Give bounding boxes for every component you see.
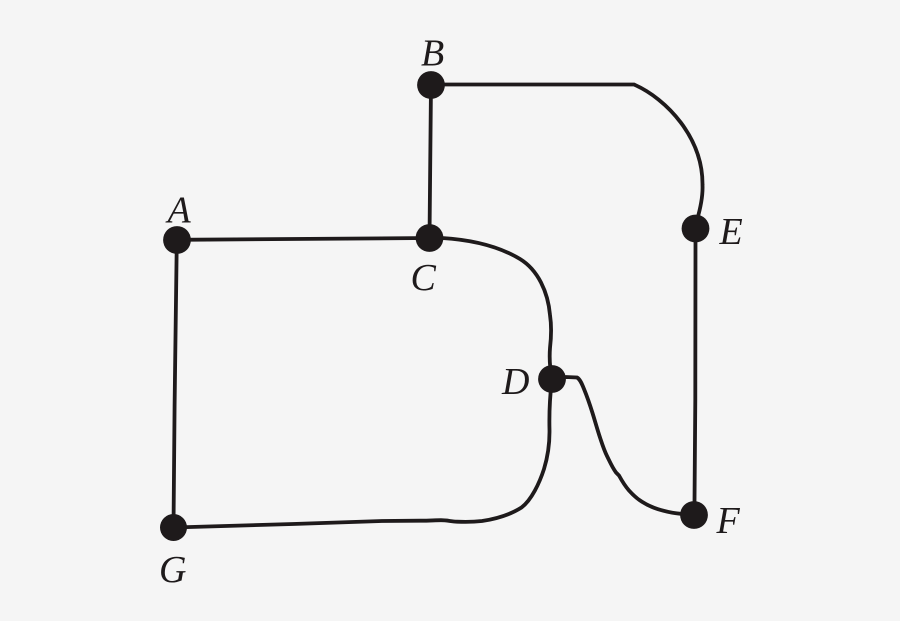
svg-text:F: F [716, 500, 741, 542]
node E [682, 215, 710, 243]
node B [417, 71, 445, 99]
wire D-G (continues below D, corner, bottom line to G) [174, 379, 553, 528]
node C [416, 224, 444, 252]
wire E-F [695, 240, 696, 503]
svg-text:C: C [411, 257, 437, 299]
svg-text:A: A [165, 190, 192, 232]
wire B-C [430, 85, 432, 238]
wire A-G [174, 240, 177, 528]
wire A-C [177, 238, 430, 240]
svg-text:B: B [421, 33, 444, 75]
wire C-D (curve from C down through D) [430, 238, 553, 379]
svg-text:E: E [719, 211, 743, 253]
node G [160, 514, 187, 541]
node F [680, 501, 708, 529]
node A [163, 226, 191, 254]
svg-text:G: G [159, 549, 186, 591]
wire B-E [431, 85, 703, 229]
wire D-F (squiggle) [552, 377, 684, 514]
node D [538, 365, 566, 393]
svg-text:D: D [501, 361, 529, 403]
